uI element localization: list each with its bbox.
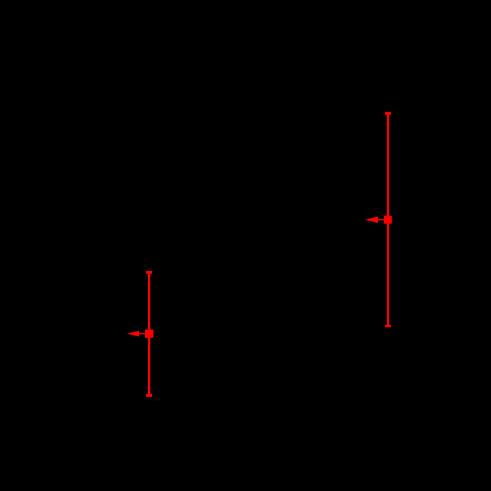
right errorbar top cap	[385, 112, 391, 115]
left square marker	[145, 330, 153, 338]
right errorbar vertical line	[387, 113, 389, 326]
right errorbar bottom cap	[385, 325, 391, 327]
right square marker	[384, 216, 392, 224]
right arrow shaft	[378, 219, 388, 221]
left arrow head	[127, 331, 139, 337]
left errorbar top cap	[146, 271, 152, 274]
left errorbar bottom cap	[146, 394, 152, 397]
right arrow head	[365, 217, 378, 223]
left arrow shaft	[139, 333, 150, 335]
left errorbar vertical line	[148, 272, 150, 395]
